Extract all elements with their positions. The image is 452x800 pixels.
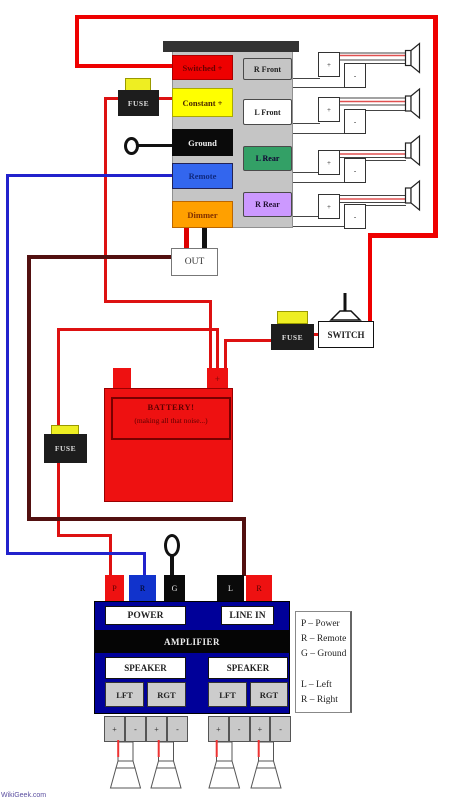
wire R Front - — [293, 87, 345, 88]
speaker SP1 — [406, 44, 420, 73]
wire battery+ post drop — [216, 328, 219, 372]
fuse F2 cap — [277, 311, 308, 324]
terminal amp G (ground) — [164, 575, 185, 601]
wire battery+ post drop (fuse F2 branch) — [224, 339, 227, 372]
wire battery+ horizontal to amp P — [57, 534, 112, 537]
wire leads SP2 — [340, 98, 406, 111]
wire head-unit ground — [137, 144, 172, 147]
wire switched+ from head unit, horizontal — [77, 64, 173, 68]
wire red conductor SP1 — [340, 55, 406, 57]
speaker SP3 — [406, 136, 420, 165]
output L Rear — [243, 146, 292, 171]
switch S1 lever — [318, 290, 388, 324]
fuse F2 body — [271, 324, 314, 350]
wire red conductor SP4 — [340, 198, 406, 200]
wire leads SP1 — [340, 53, 406, 64]
wire L Front - — [293, 133, 345, 134]
speaker B1 — [111, 740, 141, 788]
wire L Front + — [293, 123, 320, 124]
wire dimmer to OUT (red) — [184, 228, 189, 250]
speaker SP2 — [406, 89, 420, 118]
wire to OUT (black) — [202, 228, 207, 250]
terminal amp L (line in left) — [217, 575, 244, 601]
wire constant+ from fuse F1, horizontal — [104, 97, 119, 100]
battery BT1 body — [104, 388, 233, 502]
fuse F3 body — [44, 434, 87, 463]
battery BT1 sublabel — [111, 414, 231, 426]
terminal amp R (remote) — [129, 575, 156, 601]
ring terminal head-unit ground — [124, 137, 139, 155]
wire constant+ into battery + post — [209, 300, 212, 372]
legend — [295, 611, 352, 713]
terminal Dimmer — [172, 201, 233, 228]
wire constant+ horizontal to battery — [104, 300, 212, 303]
wire switched+ drop into switch S1 — [368, 233, 372, 321]
terminal block SP3 + — [318, 150, 340, 175]
wire L Rear + — [293, 172, 320, 173]
terminal block SP2 + — [318, 97, 340, 122]
terminal block SP4 + — [318, 194, 340, 219]
battery BT1 negative post — [113, 368, 131, 389]
terminal Switched+ — [172, 55, 233, 80]
fuse F3 cap — [51, 425, 79, 435]
terminal amp P (power) — [105, 575, 124, 601]
amp RGT label (left ch) — [147, 682, 186, 707]
terminal Ground — [172, 129, 233, 156]
wire leads SP3 — [340, 151, 406, 161]
amplifier U1 body — [94, 601, 290, 714]
wire battery+ to amp, horizontal from battery — [57, 328, 219, 331]
speaker SP4 — [406, 181, 420, 210]
amp AMPLIFIER label — [94, 630, 290, 653]
wire R Front + — [293, 78, 320, 79]
terminal Constant+ — [172, 88, 233, 117]
amp LFT label (right ch) — [208, 682, 247, 707]
wire switched+ top horizontal — [75, 15, 438, 19]
head unit top bar — [163, 41, 299, 52]
wire remote blue, horizontal from head unit — [6, 174, 172, 177]
bottom speakers SVG — [0, 735, 452, 800]
terminal amp R (line in right) — [246, 575, 272, 601]
wire red conductor SP3 — [340, 153, 406, 155]
terminal block SP1 + — [318, 52, 340, 77]
battery BT1 positive post — [207, 368, 228, 389]
switch S1 body — [318, 321, 374, 348]
wire switched+ right vertical — [433, 15, 438, 237]
fuse F1 cap — [125, 78, 151, 91]
battery BT1 label BATTERY! — [111, 400, 231, 414]
amp LINE IN label — [221, 606, 274, 625]
wire RCA maroon, left vertical — [27, 255, 31, 521]
speaker B3 — [209, 740, 240, 788]
terminal Remote — [172, 163, 233, 189]
terminal block SP4 - — [344, 204, 366, 229]
wire fuse F2 to switch S1 — [312, 333, 320, 336]
wire constant+ from head unit to fuse F1 — [157, 97, 172, 100]
wire switched+ lower horizontal to switch — [370, 233, 438, 238]
output R Rear — [243, 192, 292, 217]
wire R Rear + — [293, 216, 320, 217]
terminal block SP2 - — [344, 109, 366, 134]
wire RCA maroon, drop into LINE IN terminals — [242, 517, 246, 576]
terminal strip right (+ - + -) — [208, 716, 291, 742]
terminal block SP3 - — [344, 158, 366, 183]
wire RCA maroon, horizontal from OUT — [27, 255, 172, 259]
output L Front — [243, 99, 292, 125]
speaker B2 — [151, 740, 181, 788]
watermark — [1, 792, 46, 799]
output R Front — [243, 58, 292, 80]
amp SPEAKER right label — [208, 657, 288, 679]
terminal strip left (+ - + -) — [104, 716, 188, 742]
ring terminal amp ground — [164, 534, 180, 557]
wire R Rear - — [293, 226, 345, 227]
amp POWER label — [105, 606, 186, 625]
wire battery+ to fuse F2, horizontal — [224, 339, 272, 342]
amp LFT label (left ch) — [105, 682, 144, 707]
amp RGT label (right ch) — [250, 682, 288, 707]
wire leads SP4 — [340, 196, 406, 206]
amp SPEAKER left label — [105, 657, 186, 679]
wire remote blue, drop into amp R terminal — [143, 552, 146, 578]
wire L Rear - — [293, 182, 345, 183]
wire remote blue, left vertical — [6, 174, 9, 555]
OUT box — [171, 248, 218, 276]
wire battery+ vertical through fuse F3 — [57, 330, 60, 537]
wire battery+ drop into amp P terminal — [109, 534, 112, 578]
head unit panel — [172, 46, 293, 228]
speaker B4 — [251, 740, 281, 788]
wire RCA maroon, horizontal to LINE IN — [27, 517, 246, 521]
battery BT1 label frame — [111, 397, 231, 440]
wire red conductor SP2 — [340, 101, 406, 103]
terminal block SP1 - — [344, 63, 366, 88]
wire amp ground — [170, 555, 174, 578]
wire remote blue, horizontal to amp — [6, 552, 146, 555]
wire constant+ vertical drop — [104, 97, 107, 303]
wire switched+ left vertical — [75, 15, 79, 68]
fuse F1 body — [118, 90, 159, 116]
